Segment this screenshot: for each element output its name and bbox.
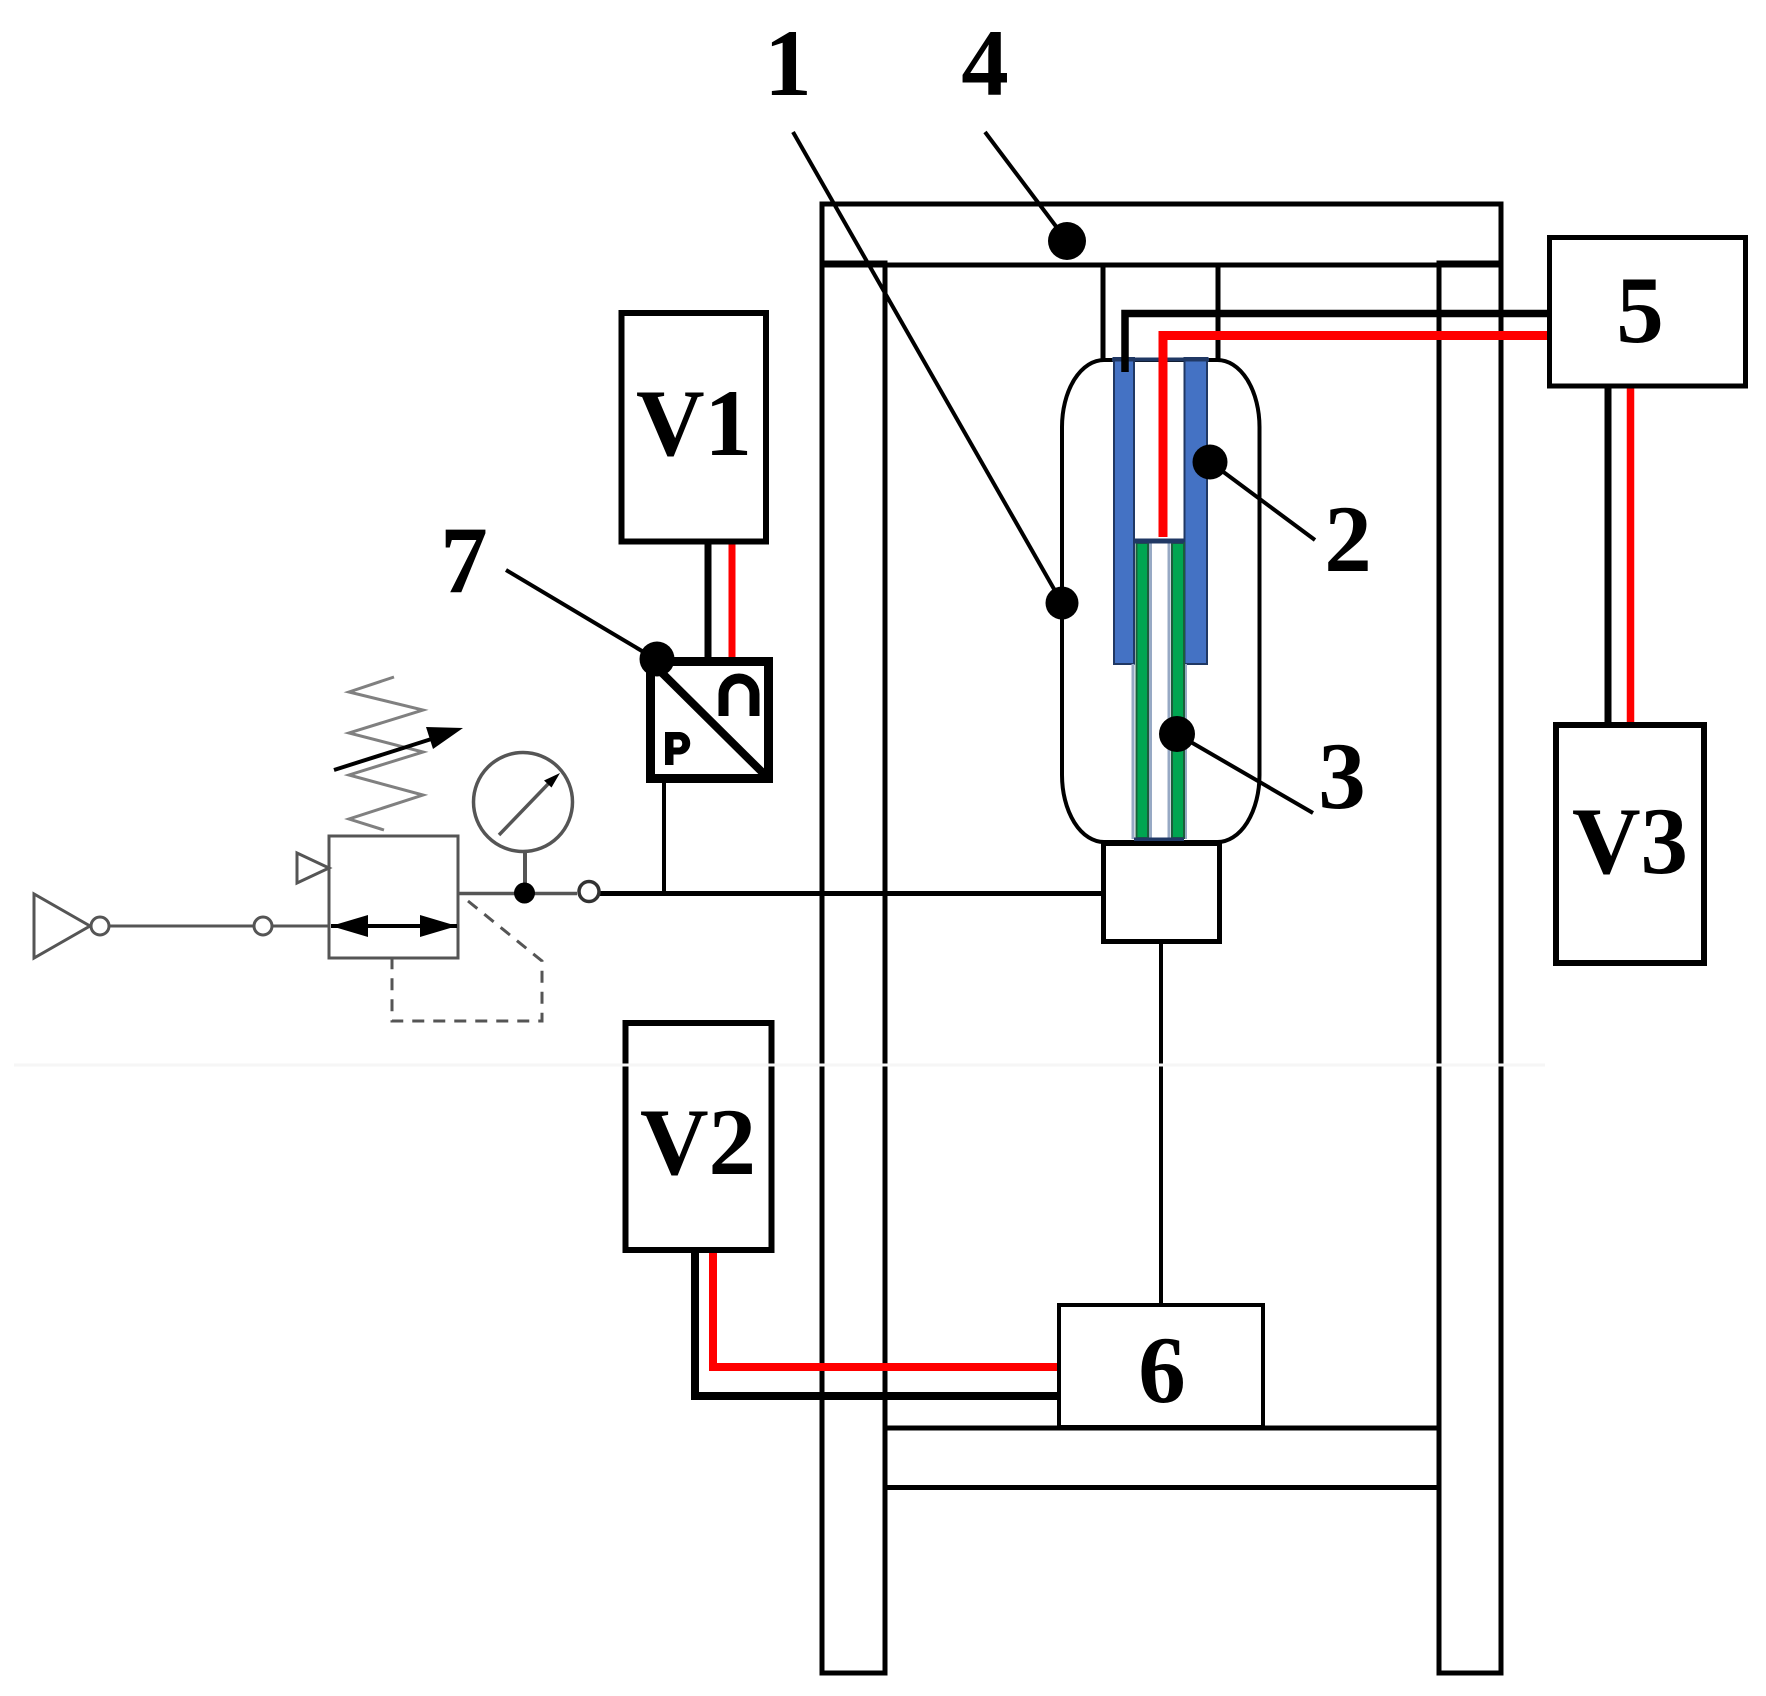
box 6 <box>1059 1305 1263 1427</box>
wire black: V1 to P sensor <box>705 544 712 659</box>
svg-text:6: 6 <box>1138 1317 1186 1423</box>
callout line 3 <box>1177 734 1313 813</box>
gauge needle <box>499 781 551 835</box>
regulator spring <box>349 677 423 830</box>
inner tube wall right inner <box>1168 543 1171 839</box>
node dot 3 <box>1159 716 1195 752</box>
svg-text:7: 7 <box>440 507 488 613</box>
regulator feedback dashed line <box>392 901 542 1021</box>
svg-text:2: 2 <box>1324 486 1372 592</box>
faint scan artifact line <box>14 1064 1545 1067</box>
regulator supply triangle <box>34 894 90 958</box>
frame left leg <box>822 263 885 1673</box>
svg-text:1: 1 <box>764 10 812 116</box>
frame top bar (4) <box>822 204 1501 265</box>
svg-text:3: 3 <box>1318 723 1366 829</box>
green electrode right 3 <box>1172 543 1184 838</box>
P sensor letter P <box>665 732 690 765</box>
node dot 1 <box>1046 587 1079 620</box>
inner tube wall left <box>1132 664 1135 839</box>
node dot 4 <box>1048 222 1086 260</box>
blue electrode top line <box>1112 358 1209 362</box>
wire: pressure sensor P to main line <box>662 781 666 893</box>
frame right leg <box>1439 263 1501 1673</box>
wire black: box 5 to V3 <box>1605 385 1612 725</box>
svg-text:4: 4 <box>961 10 1009 116</box>
regulator vent triangle <box>297 853 329 883</box>
svg-text:V2: V2 <box>640 1089 756 1195</box>
gap bottom line <box>1134 539 1184 544</box>
junction dot <box>514 883 535 904</box>
outlet circle <box>579 882 599 902</box>
inner tube wall right <box>1184 664 1187 839</box>
wire red: V2 to box 6 <box>713 1252 1060 1367</box>
wire black: box 5 to blue electrode <box>1125 314 1552 373</box>
vessel 1 (rounded capsule) <box>1062 360 1260 842</box>
inner tube wall left inner <box>1149 543 1152 839</box>
callout line 4 <box>985 132 1067 241</box>
regulator adjustment arrow <box>334 735 444 770</box>
box V2 <box>626 1023 772 1250</box>
regulator inlet line <box>109 925 331 928</box>
svg-text:V1: V1 <box>636 370 752 476</box>
regulator body <box>329 836 458 958</box>
green electrode left 3 <box>1137 543 1149 838</box>
regulator arrow left <box>331 915 368 937</box>
regulator arrow right <box>420 915 457 937</box>
wire: connector to box 6 <box>1159 939 1163 1306</box>
P sensor frequency symbol <box>724 679 755 717</box>
blue electrode right wall 2 <box>1185 358 1208 664</box>
regulator inlet circle 2 <box>254 917 272 935</box>
callout line 1 <box>793 132 1062 603</box>
hanger rod left <box>1101 263 1106 360</box>
gauge <box>474 753 573 852</box>
wire: main pneumatic line to vessel connector <box>596 891 1106 896</box>
regulator flow line <box>331 924 457 928</box>
tube bottom line <box>1134 838 1184 842</box>
regulator outlet line <box>458 892 577 896</box>
P sensor diagonal <box>655 666 769 779</box>
node dot 2 <box>1193 445 1228 480</box>
box 5 <box>1550 238 1746 387</box>
frame bottom shelf <box>885 1428 1439 1488</box>
P sensor box (7) <box>651 662 769 779</box>
blue electrode left wall 2 <box>1114 358 1134 664</box>
gauge stem <box>523 851 527 890</box>
node dot 7 <box>640 642 675 677</box>
hanger rod right <box>1216 263 1221 360</box>
box V3 <box>1556 725 1704 963</box>
regulator inlet circle 1 <box>91 917 109 935</box>
svg-text:5: 5 <box>1616 257 1664 363</box>
wire red: box 5 to V3 <box>1627 385 1635 725</box>
wire red: V1 to P sensor <box>729 544 736 659</box>
wire black: V2 to box 6 <box>695 1252 1060 1396</box>
wire red: box 5 to inner electrode <box>1163 336 1552 538</box>
svg-text:V3: V3 <box>1572 788 1688 894</box>
box V1 <box>622 313 767 542</box>
vessel bottom connector <box>1104 844 1220 942</box>
callout line 2 <box>1210 462 1315 540</box>
callout line 7 <box>506 570 657 660</box>
